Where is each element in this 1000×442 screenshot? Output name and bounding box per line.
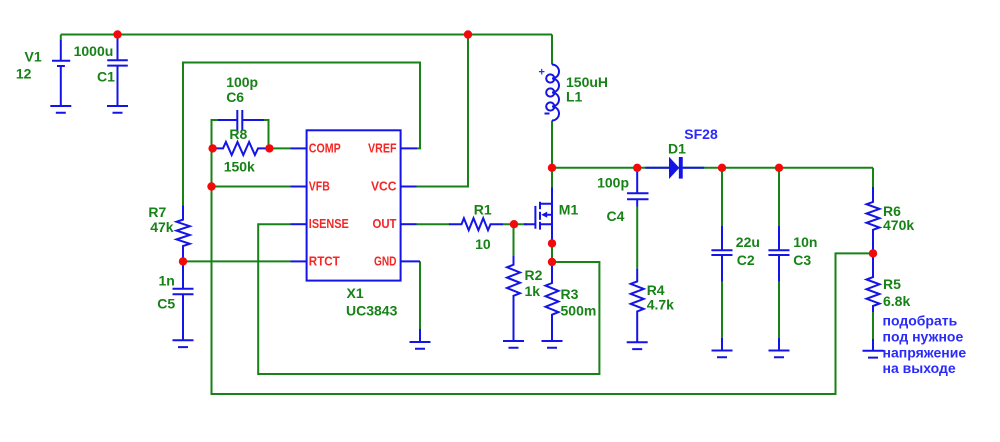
capacitor C6 (218, 110, 264, 131)
wire source node (551, 243, 553, 262)
wire C4 to R4 (636, 207, 638, 269)
ground IC (410, 329, 431, 349)
wire C3 bottom (778, 282, 780, 338)
ground R4 (627, 342, 648, 349)
svg-text:C2: C2 (737, 252, 755, 268)
wire R8 left to VFB node (211, 148, 213, 186)
wire OUT to R1 (417, 223, 451, 225)
wire top rail to L1 (551, 35, 553, 65)
svg-text:напряжение: напряжение (883, 344, 967, 360)
pin stub GND (401, 260, 421, 262)
node gate (510, 220, 518, 228)
ground R3 (542, 341, 563, 348)
inductor L1 (552, 65, 559, 121)
resistor R4 (631, 269, 644, 343)
svg-text:VFB: VFB (309, 179, 330, 194)
svg-text:100p: 100p (226, 74, 258, 90)
node source lower (548, 258, 556, 266)
svg-text:под нужное: под нужное (883, 329, 964, 345)
wire VFB pin (212, 186, 291, 188)
svg-text:1000u: 1000u (74, 43, 114, 59)
svg-text:V1: V1 (25, 48, 42, 64)
wire C6 loop right (263, 120, 269, 148)
wire C3 top (778, 168, 780, 226)
svg-text:+: + (539, 67, 545, 79)
svg-text:RTCT: RTCT (309, 254, 340, 269)
wire VREF loop (183, 63, 420, 207)
node drain (548, 164, 556, 172)
svg-text:C5: C5 (157, 296, 175, 312)
svg-text:UC3843: UC3843 (346, 303, 398, 319)
pin stub RTCT (291, 260, 307, 262)
wire C2 bottom (721, 282, 723, 338)
node R8 right (265, 144, 273, 152)
svg-text:10n: 10n (793, 234, 817, 250)
svg-text:OUT: OUT (373, 216, 397, 231)
node R8 left (208, 144, 216, 152)
svg-text:470k: 470k (883, 217, 914, 233)
svg-text:100p: 100p (597, 175, 629, 191)
svg-text:R8: R8 (229, 126, 247, 142)
wire COMP to R8 (269, 147, 290, 149)
wire GND pin branch (419, 261, 421, 329)
svg-text:L1: L1 (566, 89, 583, 105)
node C4 (633, 164, 641, 172)
pin stub OUT (401, 223, 417, 225)
svg-text:C1: C1 (97, 69, 115, 85)
capacitor C1 (107, 37, 128, 106)
voltage source V1 (52, 35, 70, 107)
capacitor C4 (627, 171, 649, 207)
node C3 (775, 164, 783, 172)
svg-text:на выходе: на выходе (883, 360, 956, 376)
svg-text:12: 12 (16, 66, 32, 82)
svg-text:R1: R1 (474, 201, 492, 217)
node C1 top (113, 30, 121, 38)
node RTCT (179, 257, 187, 265)
svg-text:VCC: VCC (371, 179, 397, 194)
svg-text:1n: 1n (159, 272, 175, 288)
svg-text:R7: R7 (148, 204, 166, 220)
pin stub VCC (401, 186, 417, 188)
svg-text:6.8k: 6.8k (883, 293, 910, 309)
resistor R5 (867, 253, 880, 312)
resistor R8 (213, 142, 270, 155)
svg-text:10: 10 (475, 236, 491, 252)
wire top supply rail (61, 34, 552, 36)
ground R5 (863, 339, 884, 358)
node source upper (548, 239, 556, 247)
svg-text:47k: 47k (150, 219, 174, 235)
node VCC rail (464, 30, 472, 38)
svg-text:GND: GND (374, 254, 397, 269)
wire drain node (551, 168, 553, 188)
wire R5 bottom (872, 312, 874, 339)
capacitor C3 (768, 226, 789, 282)
ground R2 (503, 341, 524, 348)
wire L1 to drain node (551, 121, 553, 168)
resistor R6 (867, 187, 880, 253)
ground C1 (107, 106, 128, 113)
ground C2 (712, 338, 733, 357)
svg-text:COMP: COMP (309, 140, 341, 155)
ground C5 (173, 340, 194, 347)
pin stub COMP (291, 147, 307, 149)
wire feedback loop VFB to divider (212, 187, 874, 395)
svg-text:4.7k: 4.7k (647, 297, 674, 313)
svg-text:ISENSE: ISENSE (309, 216, 349, 231)
svg-text:M1: M1 (559, 201, 579, 217)
wire VCC branch (417, 35, 469, 187)
svg-text:D1: D1 (668, 141, 686, 157)
transistor M1 (524, 188, 552, 244)
svg-text:VREF: VREF (368, 140, 397, 155)
resistor R2 (507, 256, 520, 341)
svg-text:R5: R5 (883, 276, 901, 292)
svg-text:C3: C3 (793, 252, 811, 268)
svg-text:SF28: SF28 (684, 126, 718, 142)
pin stub ISENSE (291, 223, 307, 225)
svg-text:22u: 22u (736, 234, 760, 250)
wire RTCT pin (183, 260, 291, 262)
svg-text:150k: 150k (224, 159, 255, 175)
svg-text:R2: R2 (525, 267, 543, 283)
svg-text:500m: 500m (561, 303, 597, 319)
capacitor C5 (173, 261, 194, 340)
resistor R3 (546, 262, 559, 341)
capacitor C2 (711, 226, 732, 282)
svg-text:подобрать: подобрать (883, 313, 958, 329)
node divider (869, 249, 877, 257)
ground V1 (50, 106, 71, 113)
svg-text:R3: R3 (561, 286, 579, 302)
wire ISENSE loop (258, 224, 599, 374)
pin stub VFB (291, 186, 307, 188)
diode D1 (645, 157, 704, 179)
resistor R7 (177, 206, 190, 262)
svg-text:X1: X1 (347, 285, 364, 301)
ground C3 (769, 338, 790, 357)
wire output rail (552, 167, 873, 169)
wire R1 to gate (503, 223, 527, 225)
node C2 (718, 164, 726, 172)
resistor R1 (449, 218, 503, 230)
op-amp U1 / IC X1 UC3843 box (307, 130, 401, 280)
node VFB (207, 182, 215, 190)
label minus (545, 113, 550, 115)
wire C2 top (721, 168, 723, 226)
pin stub VREF (401, 147, 418, 149)
svg-text:C4: C4 (607, 208, 625, 224)
svg-text:C6: C6 (226, 89, 244, 105)
wire R6 top (872, 168, 874, 187)
wire gate node to R2 (513, 224, 515, 256)
svg-text:1k: 1k (525, 283, 541, 299)
wire C6 loop left (212, 120, 220, 148)
